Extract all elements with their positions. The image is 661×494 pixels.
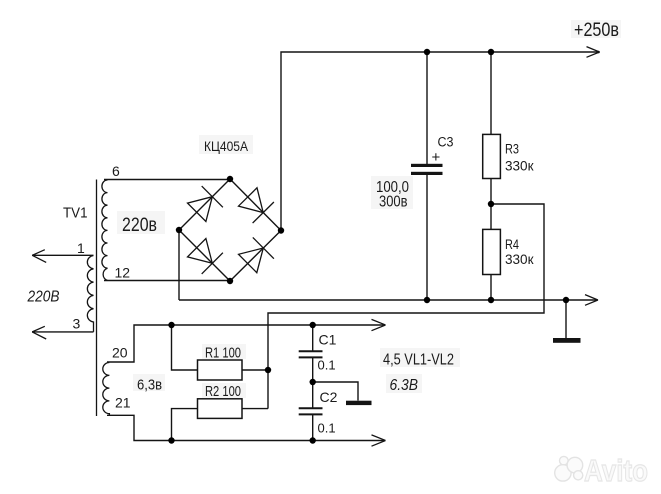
wire secondary pin 12 to bridge bottom [104,280,230,282]
wire heater bottom: pin 21 to arrow [107,415,385,440]
svg-text:+250в: +250в [574,20,619,41]
svg-text:R2 100: R2 100 [205,383,241,400]
capacitor C1 wires [312,325,314,382]
svg-text:6: 6 [112,163,120,179]
svg-text:Avito: Avito [584,453,648,488]
node bridge right [278,227,284,233]
svg-text:0.1: 0.1 [318,421,336,436]
svg-text:21: 21 [115,395,131,411]
transformer TV1 core [96,180,98,417]
svg-text:C2: C2 [320,389,338,405]
arrowhead heater top [372,319,386,330]
svg-text:TV1: TV1 [63,205,88,222]
arrowhead pin 1 [32,250,46,263]
wire bridge minus node down to ground bus [178,230,180,300]
svg-text:R4: R4 [505,236,519,252]
svg-text:C1: C1 [319,332,337,348]
diode VD SE [239,237,274,272]
svg-text:КЦ405А: КЦ405А [204,138,249,154]
winding primary (pins 1-3) [87,256,93,332]
node R3 top [488,49,494,55]
node bridge bottom [227,278,233,284]
node heater top / C1 [310,322,316,328]
capacitor C2 plates [299,408,323,414]
wire heater top: pin 20 to arrow [107,325,385,362]
node heater bottom / C2 [310,437,316,443]
resistor R3 [490,52,492,229]
node bridge top [227,176,233,182]
winding secondary 220в (pins 6-12) [102,180,108,281]
svg-text:12: 12 [115,265,131,281]
node ground bus right [563,297,569,303]
svg-text:330к: 330к [505,158,534,174]
arrowhead heater bottom [372,435,386,446]
ground (heater mid) [346,401,372,405]
faint scan shading behind labels [117,20,621,398]
node C3 bottom [424,297,430,303]
node R4 bottom [488,297,494,303]
wire primary pin 1 [32,254,94,256]
diode VD SW [188,239,223,274]
node R1 right [265,367,271,373]
bridge diamond wires [179,179,281,281]
svg-text:C3: C3 [438,135,454,150]
capacitor C1 plates [299,351,323,357]
svg-text:330к: 330к [505,251,534,267]
node R3-R4 junction [488,201,494,207]
winding heater 6,3в (pins 20-21) [103,363,110,416]
node C1-C2 midpoint [310,379,316,385]
node heater top / R1 [168,322,174,328]
node heater bottom / R2 [168,437,174,443]
svg-text:20: 20 [112,345,128,361]
capacitor C3 plates [411,164,443,167]
capacitor C3 wires [426,52,428,300]
wire divider tap to heater center: right, down, left, down [268,204,544,409]
arrowhead +250v output [587,47,600,58]
wire ground bus [179,299,597,301]
svg-text:R3: R3 [505,141,519,157]
arrowhead pin 3 [32,326,46,339]
wire C1/C2 midpoint to ground [313,382,358,401]
capacitor C2 wires [312,382,314,441]
resistor R2 [172,409,198,441]
svg-text:R1 100: R1 100 [205,345,241,362]
node bridge left [176,227,182,233]
wire right ground drop [565,300,567,338]
svg-text:1: 1 [77,240,85,256]
svg-text:220В: 220В [27,289,60,306]
svg-text:+: + [432,149,441,166]
svg-text:3: 3 [73,316,81,332]
wire +250v rail from bridge + output up and right [281,52,598,231]
ground (right) [553,338,581,343]
svg-text:220в: 220в [122,215,157,236]
resistor R4 [483,229,501,274]
svg-text:4,5 VL1-VL2: 4,5 VL1-VL2 [383,352,454,369]
diode VD NW [188,186,223,221]
wire secondary pin 6 to bridge top [104,179,230,181]
diode VD NE [239,188,274,223]
wire primary pin 3 [32,331,94,333]
svg-text:300в: 300в [379,194,408,211]
resistor R1 [172,325,198,370]
svg-text:6,3в: 6,3в [137,377,162,394]
svg-text:0.1: 0.1 [318,358,336,373]
node C3 top [424,49,430,55]
svg-text:6.3В: 6.3В [390,377,419,394]
arrowhead ground bus [585,295,598,306]
watermark Avito logo circles [555,456,583,481]
